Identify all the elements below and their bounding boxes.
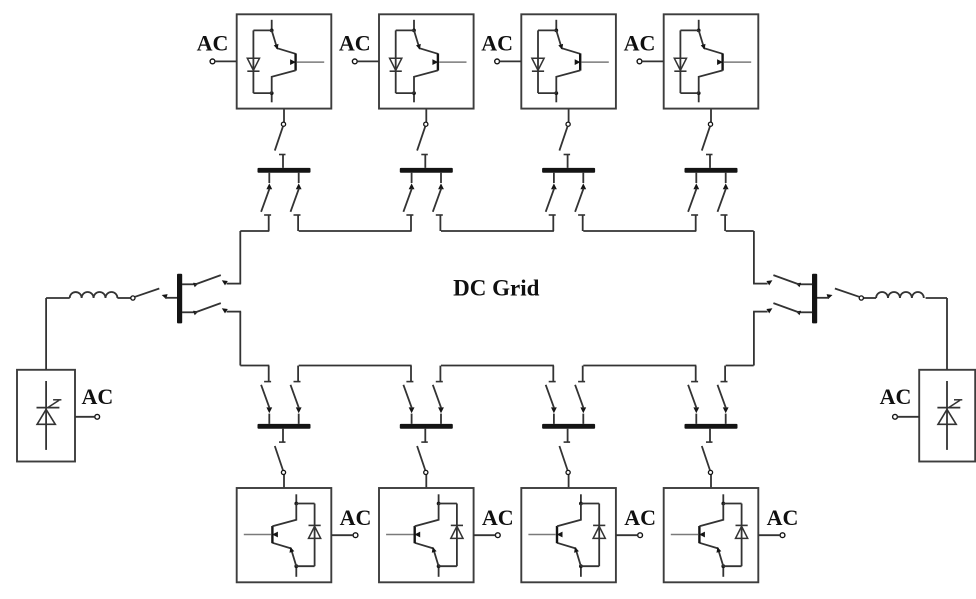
disconnector right bus lower branch: stub, blade, contact arrows <box>800 311 812 313</box>
smoothing reactor L (left) <box>70 292 118 298</box>
converter unit U3 box (top row) <box>521 14 616 108</box>
IGBT Q4 channel bar <box>721 53 723 70</box>
disconnector S3b (ring side): stub, blade arrow, blade, hinge tick, riser <box>553 173 555 183</box>
wire DC ring bottom segment 2 <box>299 365 412 367</box>
station AC terminal (left) <box>95 414 100 419</box>
svg-text:AC: AC <box>880 384 912 409</box>
svg-text:AC: AC <box>624 505 656 530</box>
bus bar B4 (top) <box>685 168 738 173</box>
wire lower branch to ring corner (right) <box>753 311 768 313</box>
disconnector S1b (ring side): stub, blade arrow, blade, hinge tick, riser <box>268 173 270 183</box>
svg-text:AC: AC <box>481 31 513 56</box>
converter unit U2 box (top row) <box>379 14 474 108</box>
thyristor valve T (right): cathode bar, triangle, gate <box>937 407 960 409</box>
converter unit U7 box (bottom row) <box>521 488 616 582</box>
wire DC ring top segment 4 <box>583 230 696 232</box>
disconnector S7a (converter side): wire, hinge, blade, contact <box>568 475 570 488</box>
IGBT Q7 gate lead <box>528 534 555 536</box>
IGBT Q1 emitter lead <box>272 70 296 93</box>
thyristor branch line (right) <box>946 381 948 450</box>
U6 AC terminal <box>495 533 500 538</box>
IGBT Q3 gate lead <box>581 61 608 63</box>
wire ring corner riser top (left) <box>239 231 241 284</box>
svg-text:AC: AC <box>767 505 799 530</box>
converter unit U8 box (bottom row) <box>664 488 759 582</box>
wire station DC riser (right) <box>946 298 948 370</box>
IGBT Q1 gate lead <box>297 61 324 63</box>
wire ring corner riser bottom (right) <box>753 312 755 366</box>
IGBT Q2 emitter arrow <box>432 59 438 65</box>
U5 internal DC-side stubs and junctions <box>295 566 297 577</box>
svg-text:AC: AC <box>339 31 371 56</box>
wire U2 AC terminal to box <box>357 60 379 62</box>
IGBT Q6 emitter lead <box>415 504 439 527</box>
wire U8 link to freewheel-diode branch <box>723 565 741 567</box>
IGBT Q3 collector lead <box>556 30 580 53</box>
wire ring corner riser bottom (left) <box>239 312 241 366</box>
wire DC ring top segment 3 <box>441 230 554 232</box>
wire U7 AC terminal to box <box>616 534 638 536</box>
disconnector station-side (left): hinge, blade, contact arrow, stub <box>131 296 135 300</box>
wire ring corner riser top (right) <box>753 231 755 284</box>
IGBT Q2 channel bar <box>437 53 439 70</box>
IGBT Q2 collector lead <box>414 30 438 53</box>
freewheel diode D5 <box>309 526 321 538</box>
U8 internal DC-side stubs and junctions <box>722 566 724 577</box>
IGBT Q6 channel bar <box>414 526 416 543</box>
smoothing reactor L (right) <box>876 292 924 298</box>
disconnector S7b (ring side): stub, blade arrow, blade, hinge tick, riser <box>553 414 555 424</box>
svg-text:AC: AC <box>624 31 656 56</box>
bus bar B2 (top) <box>400 168 453 173</box>
bus bar B5 (bottom) <box>258 424 311 429</box>
IGBT Q1 channel bar <box>294 53 296 70</box>
svg-text:AC: AC <box>82 384 114 409</box>
wire reactor to disconnector (left) <box>117 297 130 299</box>
IGBT Q6 gate lead <box>386 534 413 536</box>
wire DC ring top segment 1 <box>240 230 269 232</box>
disconnector S8b (ring side): stub, blade arrow, blade, hinge tick, riser <box>695 414 697 424</box>
bus bar B1 (top) <box>258 168 311 173</box>
bus bar B3 (top) <box>542 168 595 173</box>
disconnector S6c (ring side): stub, blade arrow, blade, hinge tick, riser <box>440 414 442 424</box>
wire U6 link to freewheel-diode branch <box>439 565 457 567</box>
svg-text:AC: AC <box>482 505 514 530</box>
wire U8 AC terminal to box <box>758 534 780 536</box>
wire DC ring bottom segment 5 <box>726 365 754 367</box>
svg-text:DC Grid: DC Grid <box>453 276 539 301</box>
U4 AC terminal <box>637 59 642 64</box>
IGBT Q6 emitter arrow <box>414 532 420 538</box>
U2 AC terminal <box>352 59 357 64</box>
disconnector S5b (ring side): stub, blade arrow, blade, hinge tick, riser <box>268 414 270 424</box>
svg-text:AC: AC <box>340 505 372 530</box>
disconnector S3c (ring side): stub, blade arrow, blade, hinge tick, riser <box>582 173 584 183</box>
disconnector right bus upper branch: stub, blade, contact arrows <box>800 283 812 285</box>
IGBT Q1 collector lead <box>272 30 296 53</box>
wire riser to smoothing reactor (left) <box>46 297 70 299</box>
wire U2 link to freewheel-diode branch <box>396 29 414 31</box>
wire U1 link to freewheel-diode branch <box>253 29 271 31</box>
disconnector S2b (ring side): stub, blade arrow, blade, hinge tick, riser <box>411 173 413 183</box>
U3 AC terminal <box>495 59 500 64</box>
converter unit U6 box (bottom row) <box>379 488 474 582</box>
U1 internal DC-side stubs and junctions <box>271 20 273 31</box>
disconnector S2a (converter side): wire, hinge, blade, contact <box>425 109 427 122</box>
wire upper branch to ring corner (right) <box>753 283 768 285</box>
LCC station box (right) <box>919 370 975 462</box>
IGBT Q8 gate lead <box>671 534 698 536</box>
U7 AC terminal <box>638 533 643 538</box>
freewheel diode D3 <box>532 58 544 70</box>
wire U4 link to freewheel-diode branch <box>680 29 698 31</box>
wire DC ring top segment 2 <box>299 230 412 232</box>
wire DC ring bottom segment 1 <box>240 365 269 367</box>
wire station box to AC terminal (right) <box>897 416 919 418</box>
IGBT Q7 collector lead <box>557 543 581 566</box>
disconnector S8c (ring side): stub, blade arrow, blade, hinge tick, riser <box>725 414 727 424</box>
IGBT Q1 emitter arrow <box>290 59 296 65</box>
wire U3 link to freewheel-diode branch <box>538 29 556 31</box>
wire lower branch to ring corner (left) <box>227 311 242 313</box>
IGBT Q2 gate lead <box>439 61 466 63</box>
thyristor valve T (left): cathode bar, triangle, gate <box>37 407 60 409</box>
wire DC ring bottom segment 3 <box>441 365 554 367</box>
U2 internal DC-side stubs and junctions <box>413 20 415 31</box>
disconnector S4a (converter side): wire, hinge, blade, contact <box>710 109 712 122</box>
freewheel diode D8 <box>736 526 748 538</box>
IGBT Q3 channel bar <box>579 53 581 70</box>
station AC terminal (right) <box>893 414 898 419</box>
disconnector left bus lower branch: stub, blade, contact arrows <box>182 311 194 313</box>
IGBT Q5 channel bar <box>271 526 273 543</box>
IGBT Q7 channel bar <box>556 526 558 543</box>
wire upper branch to ring corner (left) <box>227 283 242 285</box>
U6 internal DC-side stubs and junctions <box>438 566 440 577</box>
wire riser to smoothing reactor (right) <box>926 297 947 299</box>
IGBT Q5 gate lead <box>244 534 271 536</box>
U4 internal DC-side stubs and junctions <box>698 20 700 31</box>
bus bar B6 (bottom) <box>400 424 453 429</box>
wire DC ring top segment 5 <box>726 230 754 232</box>
converter unit U1 box (top row) <box>237 14 332 108</box>
IGBT Q4 emitter arrow <box>717 59 723 65</box>
wire station box to AC terminal (left) <box>75 416 95 418</box>
IGBT Q4 gate lead <box>724 61 751 63</box>
bus bar B7 (bottom) <box>542 424 595 429</box>
IGBT Q5 emitter arrow <box>272 532 278 538</box>
wire U4 AC terminal to box <box>642 60 664 62</box>
disconnector S4c (ring side): stub, blade arrow, blade, hinge tick, riser <box>725 173 727 183</box>
IGBT Q7 emitter lead <box>557 504 581 527</box>
U1 AC terminal <box>210 59 215 64</box>
wire U6 AC terminal to box <box>474 534 496 536</box>
wire U5 link to freewheel-diode branch <box>296 565 314 567</box>
DC bus bar (left) <box>177 274 182 324</box>
disconnector S5a (converter side): wire, hinge, blade, contact <box>283 475 285 488</box>
thyristor branch line (left) <box>45 381 47 450</box>
U7 internal DC-side stubs and junctions <box>580 566 582 577</box>
freewheel diode D6 <box>451 526 463 538</box>
freewheel diode D1 <box>247 58 259 70</box>
U3 internal DC-side stubs and junctions <box>555 20 557 31</box>
converter unit U5 box (bottom row) <box>237 488 332 582</box>
IGBT Q8 emitter arrow <box>699 532 705 538</box>
wire U7 link to freewheel-diode branch <box>581 565 599 567</box>
bus bar B8 (bottom) <box>685 424 738 429</box>
freewheel diode D7 <box>593 526 605 538</box>
IGBT Q4 emitter lead <box>699 70 723 93</box>
wire U3 AC terminal to box <box>500 60 522 62</box>
disconnector S6a (converter side): wire, hinge, blade, contact <box>425 475 427 488</box>
IGBT Q7 emitter arrow <box>557 532 563 538</box>
IGBT Q4 collector lead <box>699 30 723 53</box>
disconnector S2c (ring side): stub, blade arrow, blade, hinge tick, riser <box>440 173 442 183</box>
disconnector S4b (ring side): stub, blade arrow, blade, hinge tick, riser <box>695 173 697 183</box>
converter unit U4 box (top row) <box>664 14 759 108</box>
DC bus bar (right) <box>812 274 817 324</box>
IGBT Q3 emitter arrow <box>575 59 581 65</box>
wire U1 AC terminal to box <box>215 60 237 62</box>
freewheel diode D2 <box>390 58 402 70</box>
freewheel diode D4 <box>674 58 686 70</box>
IGBT Q5 emitter lead <box>272 504 296 527</box>
IGBT Q5 collector lead <box>272 543 296 566</box>
IGBT Q8 emitter lead <box>699 504 723 527</box>
IGBT Q8 collector lead <box>699 543 723 566</box>
IGBT Q2 emitter lead <box>414 70 438 93</box>
wire reactor to disconnector (right) <box>863 297 876 299</box>
disconnector S6b (ring side): stub, blade arrow, blade, hinge tick, riser <box>411 414 413 424</box>
disconnector S7c (ring side): stub, blade arrow, blade, hinge tick, riser <box>582 414 584 424</box>
wire station DC riser (left) <box>45 298 47 370</box>
wire DC ring bottom segment 4 <box>583 365 696 367</box>
IGBT Q3 emitter lead <box>556 70 580 93</box>
IGBT Q8 channel bar <box>698 526 700 543</box>
disconnector S8a (converter side): wire, hinge, blade, contact <box>710 475 712 488</box>
LCC station box (left) <box>17 370 75 462</box>
disconnector left bus upper branch: stub, blade, contact arrows <box>182 283 194 285</box>
disconnector S3a (converter side): wire, hinge, blade, contact <box>568 109 570 122</box>
svg-text:AC: AC <box>197 31 229 56</box>
IGBT Q6 collector lead <box>415 543 439 566</box>
disconnector S5c (ring side): stub, blade arrow, blade, hinge tick, riser <box>298 414 300 424</box>
disconnector station-side (right): hinge, blade, contact arrow, stub <box>859 296 863 300</box>
U5 AC terminal <box>353 533 358 538</box>
disconnector S1a (converter side): wire, hinge, blade, contact <box>283 109 285 122</box>
wire U5 AC terminal to box <box>331 534 353 536</box>
disconnector S1c (ring side): stub, blade arrow, blade, hinge tick, riser <box>298 173 300 183</box>
U8 AC terminal <box>780 533 785 538</box>
